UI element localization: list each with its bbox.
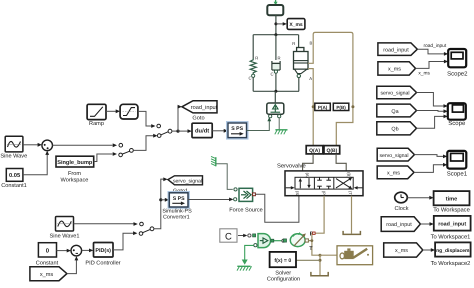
saturation block	[120, 104, 138, 119]
mechanical translational reference (road ground)	[275, 130, 288, 135]
svg-text:Scope2: Scope2	[447, 71, 468, 78]
svg-text:Servovalve: Servovalve	[277, 163, 306, 170]
wire servo_signal to Scope1 in1	[414, 155, 447, 159]
svg-text:Force Source: Force Source	[229, 207, 263, 213]
svg-text:road_input: road_input	[191, 104, 218, 111]
svg-text:R: R	[278, 56, 281, 61]
hydraulic fluid block (oil can)	[337, 246, 373, 265]
constant block "0"	[36, 243, 59, 267]
wire Ramp to Saturation	[106, 109, 120, 113]
servovalve 4/3 directional valve body	[285, 171, 363, 196]
svg-text:du/dt: du/dt	[195, 128, 209, 135]
translational velocity source (road input)	[267, 91, 284, 117]
from workspace block "Single_bump"	[56, 156, 94, 183]
from tag road_input (to Scope2)	[378, 43, 447, 56]
hydraulic line valve T to reservoir	[351, 196, 353, 234]
simulink-ps converter block (road velocity)	[227, 122, 248, 139]
wire junction to derivative du/dt	[178, 129, 192, 133]
svg-text:C: C	[249, 76, 252, 81]
svg-text:road_input: road_input	[383, 47, 409, 53]
svg-text:Qa: Qa	[391, 109, 398, 115]
svg-text:P(B): P(B)	[336, 105, 346, 110]
wire Converter1 to Force Source S port	[188, 198, 237, 202]
wire Saturation to manual switch 2 input 1	[138, 111, 156, 128]
svg-text:x_ms: x_ms	[418, 71, 430, 76]
wire x_ms to Scope2 in2	[416, 60, 449, 69]
svg-text:X_ms: X_ms	[289, 22, 303, 28]
green shaft wire source to pump	[271, 239, 287, 242]
from tag x_ms (to workspace2)	[384, 243, 423, 257]
svg-text:road_input: road_input	[424, 43, 447, 49]
mass block (sprung mass)	[267, 5, 283, 15]
bottom rail wire	[253, 90, 299, 93]
clock block	[395, 192, 409, 212]
sine wave source block "Sine Wave"	[0, 136, 27, 159]
wire Sine Wave to Sum	[23, 143, 42, 147]
wire Qb to Scope in3	[417, 115, 448, 129]
wire Sine Wave1 to manual switch 3 input 1	[74, 222, 138, 226]
wire junction up to Goto road_input	[178, 105, 182, 131]
svg-text:S PS: S PS	[173, 196, 185, 202]
sum junction (Sine Wave + Constant1)	[42, 140, 53, 151]
svg-text:Configuration: Configuration	[267, 276, 300, 283]
svg-text:x_ms: x_ms	[387, 171, 400, 177]
simulink-ps converter1 block (servo)	[162, 192, 192, 221]
to workspace block "time"	[433, 191, 470, 214]
valve port labels	[295, 172, 353, 197]
valve position 1 arrows (parallel flow)	[299, 178, 311, 188]
wire ground to Force Source C port	[216, 164, 237, 191]
svg-text:Single_bump: Single_bump	[57, 159, 93, 166]
wire Sum to manual switch 1 input 1	[53, 143, 118, 147]
svg-text:x_ms: x_ms	[40, 272, 54, 278]
wire angular velocity source case to rotational ground	[242, 245, 254, 264]
svg-text:C: C	[271, 72, 274, 77]
manual switch 2 (ramp / road select)	[157, 124, 172, 137]
hydraulic line valve P to pump	[314, 196, 324, 234]
force source block (valve spool drive)	[229, 188, 263, 213]
svg-text:To Workspace1: To Workspace1	[431, 233, 471, 240]
flow sensor block Q(B)	[324, 146, 340, 154]
wire Q(A) to valve port A	[303, 154, 314, 171]
valve pilot arrows	[286, 186, 363, 189]
pressure sensor block P(B)	[333, 103, 349, 110]
wire manual switch 2 to junction	[172, 130, 180, 133]
mechanical rotated reference ground (force source case)	[211, 156, 216, 166]
valve position 2 closed-center tees	[317, 177, 331, 189]
wire manual switch 1 to manual switch 2 input 2	[133, 134, 157, 151]
svg-text:(B): (B)	[346, 172, 351, 178]
wire Q(B) to valve port B	[336, 154, 346, 171]
wire x_ms to To Workspace2	[423, 248, 435, 252]
hydraulic cylinder (double-acting)	[292, 35, 308, 92]
svg-text:To Workspace: To Workspace	[433, 207, 470, 214]
wire Clock to time workspace	[407, 196, 433, 200]
svg-text:road_input: road_input	[438, 222, 466, 228]
pressure sensor block P(A)	[315, 103, 331, 110]
wire Constant to Sum2	[57, 249, 72, 253]
svg-text:time: time	[446, 195, 458, 202]
constant block "C" (pump speed)	[220, 229, 237, 243]
wire Force Source R port to valve spool port	[255, 194, 299, 222]
to workspace2 block "ng_displacem"	[431, 242, 471, 267]
svg-text:Clock: Clock	[395, 205, 409, 212]
from tag servo_signal (to Scope1)	[377, 148, 414, 161]
svg-text:(T): (T)	[348, 191, 353, 197]
wire velocity source C port to ground	[278, 118, 280, 130]
pump T port wire and label	[309, 246, 320, 255]
hydraulic T-junction network	[296, 254, 337, 275]
svg-text:Solver: Solver	[275, 269, 291, 276]
pid controller block "PID(s)"	[85, 243, 120, 267]
wire Single_bump to manual switch 1 input 2	[94, 152, 117, 161]
svg-text:x_ms: x_ms	[388, 67, 401, 73]
wire manual switch 3 up to Goto1 servo_signal	[154, 177, 168, 228]
svg-text:S PS: S PS	[231, 126, 243, 132]
svg-text:0.05: 0.05	[9, 172, 21, 179]
svg-text:C: C	[225, 232, 232, 243]
svg-text:servo_signal: servo_signal	[380, 91, 409, 97]
svg-text:Sine Wave1: Sine Wave1	[50, 232, 80, 239]
flow sensor block Q(A)	[306, 146, 323, 154]
sine wave source block "Sine Wave1"	[50, 217, 80, 240]
svg-text:ng_displacem: ng_displacem	[436, 248, 470, 254]
goto tag "road_input" (Goto)	[182, 101, 218, 122]
scope block Scope	[448, 103, 466, 127]
svg-text:road_input: road_input	[386, 222, 412, 228]
hydraulic reservoir tank (pump return)	[311, 272, 328, 276]
hydraulic line A (cylinder to valve A)	[308, 69, 315, 146]
svg-text:Goto: Goto	[192, 116, 204, 122]
from tag x_ms (to Scope2)	[378, 62, 431, 77]
from tag Qb (to Scope)	[377, 122, 417, 135]
constant C1 "0.05"	[1, 169, 27, 190]
wire Qa to Scope in2	[417, 109, 448, 113]
svg-text:Qb: Qb	[391, 127, 398, 133]
hydraulic reservoir tank (valve return)	[343, 231, 360, 235]
svg-text:From: From	[68, 171, 81, 177]
svg-text:servo_signal: servo_signal	[173, 178, 202, 184]
svg-text:servo_signal: servo_signal	[379, 153, 408, 159]
from tag x_ms (to Scope1)	[377, 166, 414, 179]
pump P port wire and label	[308, 231, 315, 248]
svg-text:Scope1: Scope1	[447, 171, 468, 178]
green connection stub above mass	[274, 0, 278, 5]
goto tag "X_ms" (mass position)	[287, 19, 305, 30]
svg-text:Constant: Constant	[36, 260, 59, 266]
svg-text:B: B	[310, 41, 313, 46]
wire C to angular velocity source	[238, 234, 256, 238]
svg-text:P(A): P(A)	[318, 105, 328, 110]
svg-text:Workspace: Workspace	[61, 176, 89, 183]
scope block Scope1	[447, 151, 468, 178]
svg-text:Scope: Scope	[448, 120, 466, 127]
wire Sum2 to PID	[82, 249, 94, 253]
to workspace1 block "road_input"	[431, 216, 471, 241]
wire x_ms to Sum2 bottom	[67, 256, 78, 274]
from tag servo_signal (to Scope)	[377, 86, 417, 99]
wire x_ms to Scope1 in2	[414, 163, 447, 173]
svg-text:R: R	[255, 56, 258, 61]
valve position 3 crossed flow	[336, 178, 352, 190]
svg-text:f(x) = 0: f(x) = 0	[274, 258, 291, 264]
servovalve label	[277, 163, 306, 170]
sum junction Sum2 (error)	[71, 245, 82, 256]
goto tag "servo_signal" (Goto1)	[168, 176, 203, 195]
scope block Scope2	[447, 49, 468, 78]
svg-text:Q(B): Q(B)	[326, 148, 337, 154]
wire du/dt to Simulink-PS Converter	[212, 129, 228, 133]
wire converter to velocity source S port	[247, 115, 272, 131]
wire road_input to Scope2 in1	[417, 49, 448, 56]
hydraulic line B (cylinder to valve B)	[308, 32, 354, 145]
manual switch 1 (road signal select)	[119, 143, 134, 156]
wire junction to Simulink-PS Converter1	[161, 198, 169, 202]
svg-text:(S): (S)	[295, 191, 300, 197]
svg-text:PID Controller: PID Controller	[85, 259, 120, 266]
svg-text:A: A	[309, 76, 312, 81]
from tag road_input (to workspace1)	[381, 217, 420, 232]
ramp source block "Ramp"	[87, 104, 106, 127]
derivative block "du/dt"	[192, 123, 212, 137]
solver configuration block f(x)=0	[267, 252, 300, 283]
svg-text:Constant1: Constant1	[1, 183, 27, 189]
svg-text:R: R	[292, 41, 295, 46]
wire PID to manual switch 3 input 2	[113, 231, 137, 250]
svg-text:x_ms: x_ms	[395, 248, 408, 254]
svg-text:PID(s): PID(s)	[95, 248, 111, 254]
wire Constant1 to Sum bottom	[23, 151, 49, 175]
spring (suspension) with R/C ports	[249, 35, 259, 92]
svg-text:Q(A): Q(A)	[309, 148, 320, 154]
svg-text:(A): (A)	[305, 173, 310, 179]
mechanical rotational reference (pump ground)	[237, 266, 252, 270]
fixed-displacement hydraulic pump	[290, 232, 308, 247]
svg-text:Ramp: Ramp	[89, 121, 104, 127]
svg-text:To Workspace2: To Workspace2	[431, 260, 471, 267]
wire road_input to To Workspace1	[420, 222, 433, 226]
damper (suspension) with R/C ports	[271, 35, 281, 92]
top rail wire	[253, 33, 298, 36]
wire mass to top rail with X_ms branch	[274, 15, 286, 34]
manual switch 3 (servo signal select)	[139, 222, 154, 235]
svg-text:Converter1: Converter1	[163, 215, 190, 221]
from tag "x_ms" (feedback)	[30, 267, 67, 281]
wire servo_signal to Scope in1	[417, 93, 448, 108]
svg-text:Sine Wave: Sine Wave	[0, 153, 27, 160]
from tag Qa (to Scope)	[377, 104, 417, 117]
ideal angular velocity source	[254, 234, 271, 248]
